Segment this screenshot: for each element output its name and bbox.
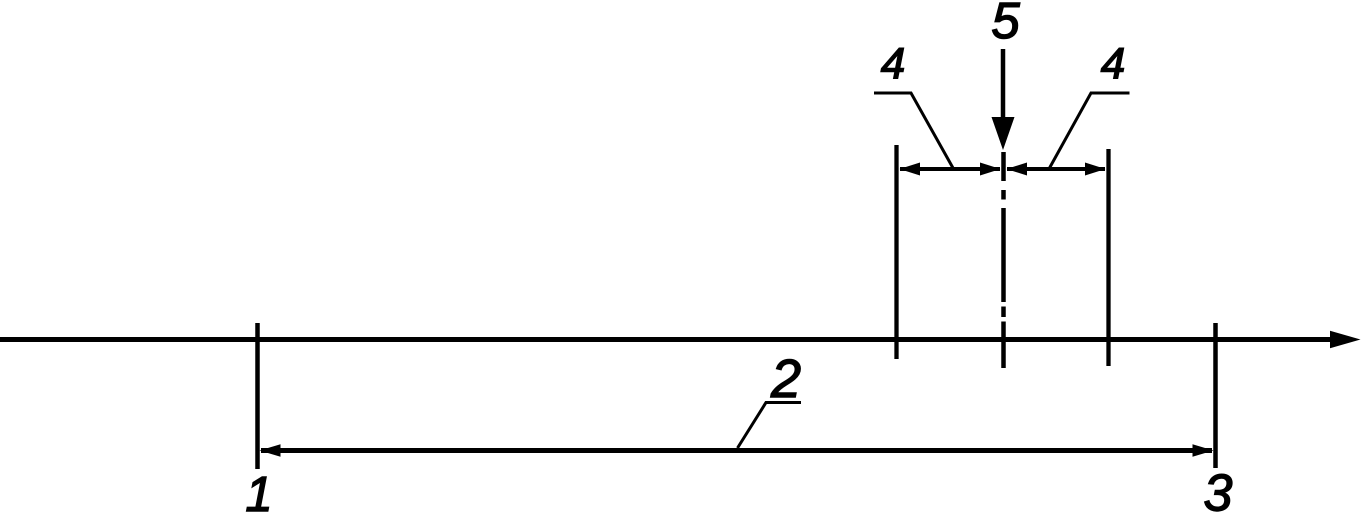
left span left arrowhead	[900, 163, 921, 176]
left span right arrowhead	[980, 163, 1001, 176]
dimension line 2	[261, 448, 1212, 453]
tick mark node 1	[255, 323, 260, 469]
right boundary line of zone	[1106, 149, 1110, 366]
tick mark node 3	[1213, 323, 1218, 468]
left boundary line of zone	[894, 145, 898, 359]
svg-text:5: 5	[991, 0, 1020, 49]
svg-text:2: 2	[770, 349, 801, 409]
svg-text:4: 4	[1101, 40, 1125, 89]
right span left arrowhead	[1007, 163, 1028, 176]
svg-text:4: 4	[881, 40, 905, 89]
dimension line 4 right span	[1007, 167, 1105, 171]
arrow 5 head	[992, 117, 1015, 150]
dimension 2 left arrowhead	[260, 444, 281, 457]
main axis line	[0, 337, 1332, 342]
dimension 2 right arrowhead	[1193, 444, 1214, 457]
arrow 5 (vertical pointer)	[1001, 49, 1006, 122]
leader line for label 2	[738, 403, 802, 449]
right span right arrowhead	[1085, 163, 1106, 176]
center line (dash-dot)	[1001, 152, 1006, 368]
dimension line 4 left span	[900, 167, 1000, 171]
leader line for left label 4	[874, 93, 953, 168]
leader line for right label 4	[1050, 93, 1130, 168]
svg-text:3: 3	[1204, 465, 1233, 516]
svg-text:1: 1	[245, 468, 272, 516]
main axis arrowhead	[1330, 331, 1361, 348]
